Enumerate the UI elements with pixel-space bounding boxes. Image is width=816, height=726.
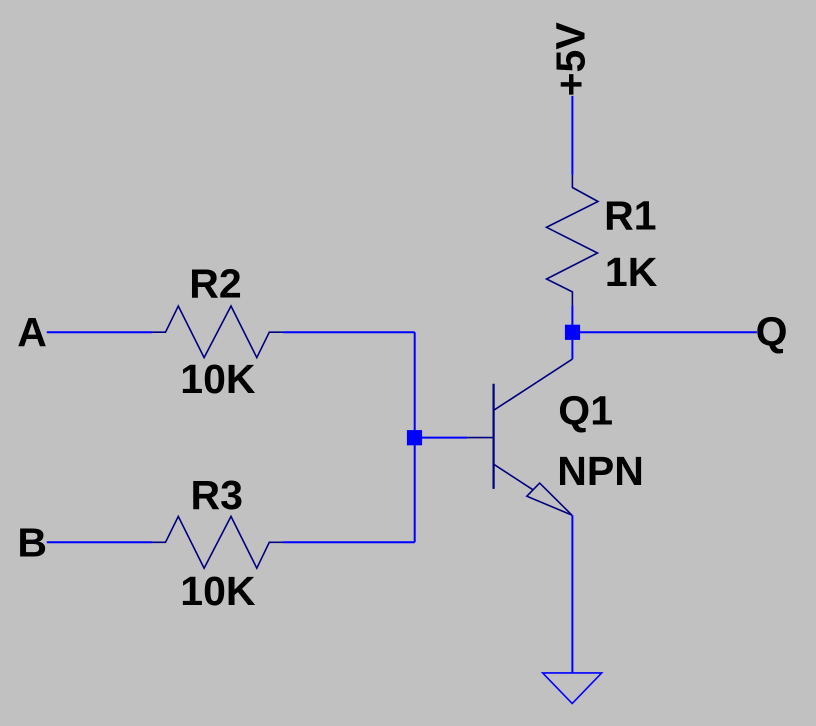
wire junction to base	[422, 437, 467, 439]
transistor Q1 base bar	[493, 384, 495, 489]
wire B to R3	[47, 541, 153, 543]
wire R1 to junction	[571, 306, 573, 325]
transistor Q1 emitter line	[494, 464, 533, 489]
wire R2 to corner	[283, 331, 415, 333]
svg-text:10K: 10K	[180, 568, 256, 614]
wire junction to collector	[571, 340, 573, 359]
svg-text:Q1: Q1	[558, 388, 613, 434]
transistor Q1 emitter arrow	[527, 483, 572, 515]
svg-text:R2: R2	[189, 260, 241, 306]
node junction square (base node)	[407, 430, 422, 445]
resistor R1	[547, 175, 599, 306]
wire A to R2	[47, 331, 153, 333]
svg-text:A: A	[17, 309, 47, 355]
transistor Q1 base lead	[467, 437, 492, 439]
svg-text:R3: R3	[191, 472, 243, 518]
wire +5V to R1	[571, 96, 573, 175]
svg-text:1K: 1K	[605, 249, 658, 295]
wire vertical A/B merge	[414, 332, 416, 542]
transistor Q1 collector line	[494, 359, 572, 410]
svg-text:Q: Q	[756, 309, 788, 355]
resistor R3	[153, 516, 283, 568]
wire emitter to ground	[571, 515, 573, 673]
ground	[543, 673, 602, 704]
svg-text:+5V: +5V	[548, 22, 594, 97]
svg-text:NPN: NPN	[557, 448, 644, 494]
resistor R2	[153, 306, 283, 358]
wire R3 to corner	[283, 541, 415, 543]
svg-text:B: B	[17, 519, 47, 565]
svg-text:10K: 10K	[180, 356, 256, 402]
wire junction to Q	[580, 331, 757, 333]
svg-text:R1: R1	[604, 193, 656, 239]
node junction square (output node)	[565, 325, 580, 340]
